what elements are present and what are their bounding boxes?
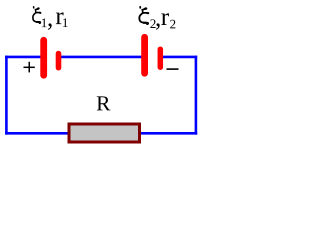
wire: top left segment to battery E1 bbox=[5, 56, 43, 59]
wire: left vertical bbox=[5, 56, 8, 135]
label xi1, r1 for battery E1 bbox=[33, 7, 68, 30]
label xi2, r2 for battery E2 bbox=[139, 7, 175, 30]
polarity + sign at battery E1 bbox=[24, 62, 35, 73]
wire: top right segment from battery E2 bbox=[160, 56, 197, 59]
resistor R bbox=[69, 124, 140, 142]
wire: right vertical bbox=[195, 56, 198, 135]
battery E1 long plate (positive) bbox=[40, 40, 47, 75]
battery E2 long plate (positive) bbox=[141, 37, 148, 73]
battery E2 short plate (negative) bbox=[158, 49, 164, 67]
wire: segment between battery E1 and battery E2 bbox=[58, 56, 144, 59]
label R for resistor bbox=[97, 96, 111, 110]
battery E1 short plate (negative) bbox=[56, 54, 62, 68]
polarity - sign at battery E2 bbox=[167, 68, 179, 70]
wire: bottom horizontal bbox=[5, 132, 197, 135]
